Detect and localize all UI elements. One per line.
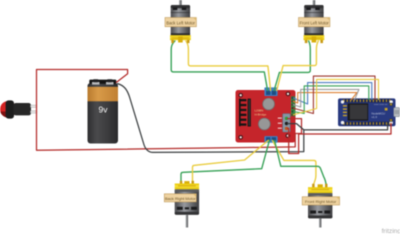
mounting hole BR [286, 133, 291, 138]
wire: back-right motor yellow to OUT block [193, 140, 269, 183]
wire: IN1 orange to NodeMCU [293, 93, 357, 103]
terminal block bottom (motor outputs) [264, 136, 277, 143]
ESP8266 module [348, 103, 369, 120]
NodeMCU PCB [338, 98, 396, 126]
motor M3 Back Right Motor [164, 181, 199, 228]
wire: battery + to switch to L298N +12V (red) [37, 70, 302, 151]
battery top cap [89, 80, 116, 84]
mounting hole TL [238, 93, 243, 98]
antenna zigzag [343, 105, 347, 116]
svg-text:Front Left Motor: Front Left Motor [300, 20, 330, 25]
svg-text:9v: 9v [99, 105, 109, 115]
wire: ENA blue to NodeMCU [293, 83, 372, 104]
wire: IN3 dark-red to NodeMCU [293, 76, 375, 113]
battery orange band [88, 87, 119, 102]
wire: IN2 gray to NodeMCU [293, 89, 359, 107]
svg-text:Front Right Motor: Front Right Motor [305, 199, 337, 204]
terminal - [92, 82, 100, 85]
wire: ENB yellow to NodeMCU [293, 79, 379, 115]
FLASH button [389, 119, 392, 122]
flash button [385, 108, 388, 111]
RST button [389, 103, 392, 106]
wire: front-right motor yellow to OUT block [272, 140, 316, 184]
wire: front-right motor green to OUT block [275, 140, 327, 184]
motor M1 Back Left Motor [165, 0, 196, 43]
motor M2 Front Left Motor [299, 0, 330, 43]
pin 1 [31, 105, 37, 107]
motor M4 Front Right Motor [302, 184, 339, 228]
L298N PCB [236, 90, 296, 143]
terminal + [106, 82, 114, 85]
svg-text:v1.0: v1.0 [372, 115, 378, 119]
power terminal block (+12V GND +5V) [283, 114, 291, 132]
bottom pin row [343, 122, 392, 126]
flange [6, 100, 14, 118]
red cap dome [0, 101, 16, 118]
wire: front-left motor yellow to OUT block [277, 41, 319, 91]
wire: L298N GND to NodeMCU GND (black) [288, 124, 388, 130]
corner holes [341, 100, 344, 103]
body [14, 103, 32, 115]
wire: IN4 green to NodeMCU [293, 86, 369, 114]
mounting hole TR [286, 92, 291, 97]
top pin row [343, 99, 392, 103]
control pin header [291, 96, 295, 116]
svg-text:Back Right Motor: Back Right Motor [165, 196, 196, 201]
micro-USB connector [394, 108, 400, 117]
wire: front-left motor green to OUT block [274, 41, 310, 91]
terminal block top (motor outputs) [264, 87, 277, 96]
wire: back-left motor green to OUT block [171, 41, 267, 91]
svg-text:eeee eeee ee: eeee eeee ee [374, 104, 388, 106]
9V battery body [88, 83, 119, 144]
pin 2 [31, 111, 37, 113]
heatsink [239, 99, 251, 127]
svg-text:fritzing: fritzing [382, 228, 400, 234]
wire: L298N +5V to NodeMCU Vin (red) [288, 124, 392, 154]
svg-text:H-Bridge: H-Bridge [255, 113, 267, 117]
capacitor C1 [263, 98, 275, 110]
wire: back-left motor yellow to OUT block [186, 41, 271, 91]
capacitor C2 [258, 118, 270, 130]
wire: battery - to L298N GND (black) [118, 84, 304, 153]
wire: back-right motor green to OUT block [181, 140, 269, 183]
mounting hole BL [238, 135, 243, 140]
svg-text:Back Left Motor: Back Left Motor [166, 20, 195, 25]
